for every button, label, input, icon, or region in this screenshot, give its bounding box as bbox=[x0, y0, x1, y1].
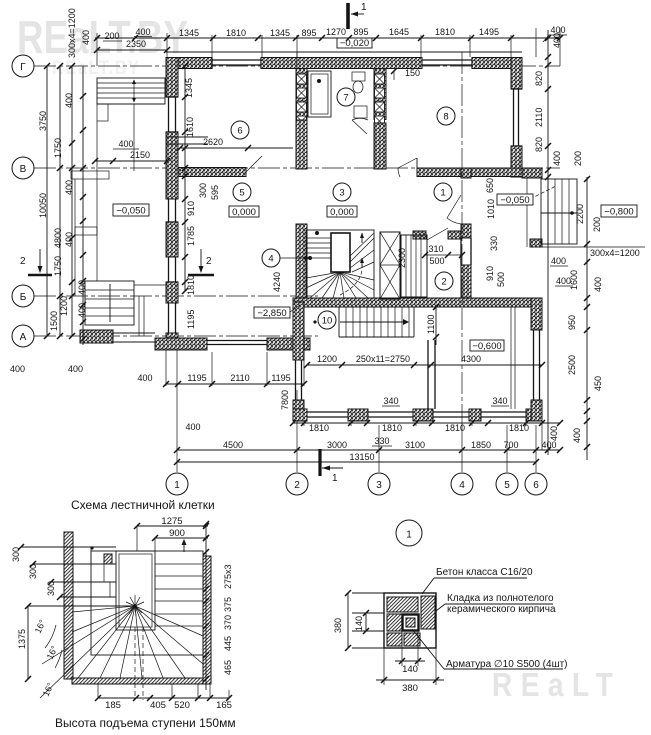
column circle 6 bbox=[525, 473, 547, 495]
elevation box -0.050 left bbox=[113, 204, 149, 216]
svg-text:1785: 1785 bbox=[186, 226, 196, 246]
stair left flight steps bbox=[306, 237, 331, 239]
svg-text:340: 340 bbox=[383, 396, 398, 406]
elevation box -0.800 bbox=[601, 205, 637, 217]
svg-text:Бетон класса С16/20: Бетон класса С16/20 bbox=[436, 567, 533, 578]
svg-text:375: 375 bbox=[223, 597, 233, 612]
left bottom dim row bbox=[166, 383, 304, 385]
stair right winders bbox=[350, 238, 374, 262]
axis circle В bbox=[12, 157, 34, 179]
dim 1275 bbox=[137, 525, 208, 527]
rebar core square bbox=[403, 615, 419, 631]
wing left wall window W10 bbox=[295, 360, 297, 400]
svg-text:REaLT.BY: REaLT.BY bbox=[52, 57, 141, 79]
porch landing left near В bbox=[71, 171, 109, 179]
svg-text:650: 650 bbox=[485, 178, 495, 193]
svg-text:400: 400 bbox=[185, 422, 200, 432]
svg-text:1810: 1810 bbox=[186, 275, 196, 295]
svg-text:1: 1 bbox=[174, 480, 180, 491]
wall top segment A bbox=[166, 58, 212, 69]
right dim line upper bbox=[547, 30, 549, 455]
svg-text:Г: Г bbox=[20, 62, 26, 73]
svg-text:1: 1 bbox=[440, 188, 445, 199]
svg-text:2110: 2110 bbox=[230, 373, 249, 383]
svg-text:Арматура ∅10 S500 (4шт): Арматура ∅10 S500 (4шт) bbox=[446, 659, 568, 670]
stair detail left wall bbox=[64, 532, 73, 679]
wing bottom wall seg1 bbox=[293, 409, 307, 421]
bottom dim 380 bbox=[383, 648, 385, 685]
wing bottom wall pier3 bbox=[469, 409, 481, 421]
wall column4 mid bbox=[374, 123, 386, 169]
svg-text:400: 400 bbox=[552, 151, 562, 166]
svg-text:3100: 3100 bbox=[405, 440, 425, 450]
wing stair circle 10 bbox=[318, 311, 336, 329]
svg-text:250x11=2750: 250x11=2750 bbox=[356, 354, 410, 364]
window left W7 bbox=[168, 303, 170, 333]
column axis 4 line bbox=[461, 425, 463, 472]
wall left column1 mid1 bbox=[166, 132, 178, 199]
svg-text:310: 310 bbox=[428, 244, 443, 254]
svg-text:1195: 1195 bbox=[187, 373, 206, 383]
svg-text:1375: 1375 bbox=[17, 629, 27, 649]
wing bottom window W12b bbox=[481, 411, 526, 413]
svg-text:400: 400 bbox=[81, 30, 91, 45]
brick hatch top-left bbox=[387, 597, 418, 612]
svg-text:1100: 1100 bbox=[426, 315, 436, 334]
wall column2 mid bbox=[296, 120, 307, 169]
wall interior 4-5 thin mid bbox=[460, 238, 462, 265]
wing right window W13 bbox=[533, 330, 535, 400]
window left W4 bbox=[168, 97, 170, 132]
axis 4 dash line vertical bbox=[461, 52, 463, 430]
elevation box -0.050 right bbox=[497, 194, 533, 205]
svg-text:8: 8 bbox=[443, 112, 448, 123]
axis В line bbox=[34, 167, 560, 169]
svg-text:1: 1 bbox=[332, 473, 338, 484]
svg-text:700: 700 bbox=[503, 440, 518, 450]
column circle 3 bbox=[368, 473, 390, 495]
wall left column1 upper bbox=[166, 58, 178, 98]
svg-text:1850: 1850 bbox=[471, 440, 491, 450]
svg-text:Б: Б bbox=[20, 292, 27, 303]
wall bottom-left (А axis) seg2 bbox=[267, 338, 310, 350]
svg-text:1345: 1345 bbox=[184, 78, 194, 98]
svg-text:1645: 1645 bbox=[389, 27, 409, 37]
dim 900 bbox=[155, 537, 208, 539]
svg-text:330: 330 bbox=[489, 236, 499, 251]
axis circle Г bbox=[12, 55, 34, 77]
left dim 380 bbox=[347, 593, 349, 648]
svg-text:6: 6 bbox=[237, 126, 242, 137]
svg-text:Кладка из полнотелого: Кладка из полнотелого bbox=[447, 593, 554, 604]
svg-text:275x3: 275x3 bbox=[223, 564, 233, 589]
section flag 1 bottom bbox=[318, 449, 321, 476]
stair walking line bbox=[340, 270, 362, 295]
svg-text:1810: 1810 bbox=[309, 423, 329, 433]
wing right wall top bbox=[531, 298, 542, 330]
wall left column1 mid2 bbox=[166, 222, 178, 257]
brick hatch left-mid bbox=[387, 614, 402, 631]
svg-text:2350: 2350 bbox=[126, 39, 146, 49]
svg-text:1750: 1750 bbox=[53, 138, 63, 158]
svg-text:1810: 1810 bbox=[435, 27, 455, 37]
svg-text:300: 300 bbox=[28, 564, 38, 579]
wall left column1 lower bbox=[166, 282, 178, 303]
room circle 4 bbox=[262, 249, 280, 267]
left dim 140 bbox=[365, 613, 367, 631]
wall axis В left part bbox=[166, 168, 246, 177]
window А-wall W9 bbox=[207, 340, 267, 342]
window left W6 bbox=[168, 257, 170, 282]
svg-text:5: 5 bbox=[504, 480, 510, 491]
room circle 1 bbox=[434, 183, 452, 201]
column section outer square bbox=[384, 593, 436, 648]
wall left column1 bottom bbox=[166, 333, 178, 350]
svg-text:400: 400 bbox=[135, 27, 150, 37]
section flag 1 top bbox=[346, 3, 350, 29]
svg-text:5: 5 bbox=[239, 188, 244, 199]
svg-text:895: 895 bbox=[353, 27, 368, 37]
svg-text:820: 820 bbox=[534, 71, 544, 86]
svg-text:450: 450 bbox=[593, 376, 603, 391]
COLUMN-DETAIL bbox=[333, 520, 568, 694]
wing upper dim row bbox=[307, 364, 542, 366]
svg-text:300: 300 bbox=[46, 581, 56, 596]
svg-text:400: 400 bbox=[549, 426, 559, 441]
axis circle А bbox=[12, 325, 34, 347]
svg-text:400: 400 bbox=[77, 303, 87, 318]
inner left dim line bbox=[184, 66, 186, 291]
elevation box -0.020 bbox=[337, 38, 372, 48]
wing bottom wall seg3 bbox=[526, 409, 542, 421]
porch wall bottom-left block bbox=[80, 330, 113, 343]
right dim column bbox=[205, 524, 207, 690]
svg-text:1195: 1195 bbox=[271, 373, 290, 383]
room circle 5 bbox=[233, 183, 251, 201]
svg-text:185: 185 bbox=[105, 700, 121, 711]
svg-text:900: 900 bbox=[169, 528, 185, 539]
svg-text:4240: 4240 bbox=[272, 272, 282, 292]
svg-text:А: А bbox=[20, 332, 27, 343]
А wall extension lines bbox=[165, 350, 167, 386]
room circle 2 bbox=[435, 272, 453, 290]
column circle 4 bbox=[451, 473, 473, 495]
svg-text:2300: 2300 bbox=[397, 248, 407, 268]
svg-text:4: 4 bbox=[268, 254, 273, 265]
svg-text:1500: 1500 bbox=[49, 311, 59, 331]
svg-text:4500: 4500 bbox=[223, 440, 243, 450]
bottom main dim row bbox=[177, 449, 560, 451]
svg-text:2: 2 bbox=[294, 480, 300, 491]
elevation box 0.000 room3 bbox=[327, 206, 357, 217]
left dim lines bbox=[46, 66, 48, 336]
room circle 6 bbox=[231, 121, 249, 139]
svg-text:−0,600: −0,600 bbox=[472, 341, 501, 352]
axis 2 dash line vertical short bbox=[296, 52, 298, 68]
svg-text:150: 150 bbox=[405, 68, 420, 78]
wall column2 bathroom-left bbox=[296, 69, 307, 121]
wall bottom-left (А axis) seg1 bbox=[155, 338, 207, 350]
svg-text:2: 2 bbox=[20, 256, 26, 267]
column circle 1 bbox=[166, 473, 188, 495]
svg-text:10: 10 bbox=[322, 316, 333, 327]
wall column4 bathroom-right bbox=[374, 69, 386, 120]
svg-text:1195: 1195 bbox=[186, 310, 196, 329]
wall column2 stair-left bbox=[296, 224, 307, 302]
angle arcs bbox=[45, 625, 56, 648]
svg-text:380: 380 bbox=[333, 618, 343, 633]
svg-text:165: 165 bbox=[216, 700, 232, 711]
svg-text:Схема лестничной клетки: Схема лестничной клетки bbox=[71, 498, 215, 512]
brick hatch bottom-left bbox=[387, 633, 402, 646]
bottom dim 140 bbox=[401, 631, 403, 666]
fan center rays bbox=[126, 595, 144, 616]
column axis 2 line bbox=[296, 390, 298, 472]
wing top wall bbox=[293, 298, 542, 307]
svg-text:200: 200 bbox=[104, 31, 119, 41]
toilet room7 bbox=[352, 72, 365, 81]
svg-text:REaLT: REaLT bbox=[492, 667, 621, 704]
wing stair end wall and partition bbox=[413, 307, 415, 337]
svg-text:4300: 4300 bbox=[461, 354, 481, 364]
elevation box -0.600 bbox=[470, 340, 504, 351]
svg-text:400: 400 bbox=[556, 276, 571, 286]
sink room7 bbox=[354, 106, 367, 118]
stair detail right wall bbox=[203, 556, 211, 684]
axis circle Б bbox=[12, 285, 34, 307]
svg-text:1750: 1750 bbox=[53, 256, 63, 276]
svg-text:910: 910 bbox=[485, 266, 495, 281]
terrace edge lines left bbox=[74, 179, 76, 296]
wing bottom window W11b bbox=[368, 411, 413, 413]
column axis 1 line bbox=[176, 345, 178, 472]
svg-text:6: 6 bbox=[533, 480, 539, 491]
svg-text:300x4=1200: 300x4=1200 bbox=[590, 248, 640, 258]
svg-text:400: 400 bbox=[68, 364, 83, 374]
svg-text:340: 340 bbox=[492, 396, 507, 406]
brick hatch bottom-mid bbox=[404, 633, 420, 646]
wing bottom window W11a bbox=[307, 411, 348, 413]
brick hatch right bbox=[421, 596, 435, 629]
door at В wall left of room8 bbox=[416, 158, 418, 177]
svg-text:1275: 1275 bbox=[161, 516, 182, 527]
STAIR-DETAIL bbox=[11, 498, 236, 730]
svg-text:400: 400 bbox=[572, 428, 582, 443]
elevation box 0.000 room5 bbox=[229, 206, 259, 217]
svg-text:7800: 7800 bbox=[280, 390, 290, 410]
svg-text:0,000: 0,000 bbox=[232, 207, 256, 218]
svg-text:400: 400 bbox=[541, 440, 556, 450]
wall right top corner bbox=[511, 58, 522, 90]
section grid lines bbox=[352, 592, 384, 594]
wing left wall lower bbox=[293, 400, 304, 421]
left dim 1375 bbox=[27, 606, 29, 679]
svg-text:465: 465 bbox=[223, 660, 233, 675]
wall axis В right part bbox=[417, 168, 542, 177]
svg-text:400: 400 bbox=[64, 180, 74, 195]
stair detail bottom wall bbox=[72, 678, 203, 684]
window left W5 bbox=[168, 199, 170, 222]
svg-text:500: 500 bbox=[496, 272, 506, 287]
wing stair steps bbox=[338, 307, 340, 337]
axis Б line bbox=[34, 295, 318, 297]
column axis 5 line bbox=[506, 425, 508, 472]
svg-text:13150: 13150 bbox=[349, 452, 374, 462]
bottom total dim row bbox=[177, 461, 536, 463]
wall interior 4-5 lower bbox=[461, 265, 471, 306]
svg-text:300x4=1200: 300x4=1200 bbox=[67, 8, 77, 58]
svg-text:1810: 1810 bbox=[382, 423, 402, 433]
room circle 8 bbox=[437, 107, 455, 125]
svg-text:2: 2 bbox=[441, 277, 446, 288]
svg-text:7: 7 bbox=[343, 93, 348, 104]
svg-text:595: 595 bbox=[210, 185, 220, 200]
svg-text:3750: 3750 bbox=[38, 111, 48, 131]
stair fan steps bbox=[306, 272, 340, 278]
svg-text:400: 400 bbox=[552, 33, 562, 48]
svg-text:В: В bbox=[20, 164, 27, 175]
wing stair dim 1100 bbox=[435, 307, 437, 345]
wall small hatch above room2 bbox=[413, 231, 426, 239]
svg-text:керамического кирпича: керамического кирпича bbox=[447, 604, 556, 615]
right exterior stair dims bbox=[586, 177, 588, 247]
porch stair top-left bbox=[97, 78, 165, 104]
top extension lines bbox=[96, 33, 98, 66]
wing bottom extension lines bbox=[303, 421, 305, 426]
room circle 7 bbox=[337, 88, 355, 106]
svg-text:400: 400 bbox=[10, 364, 25, 374]
dashed lines down bbox=[134, 627, 136, 700]
outer face line top wall bbox=[166, 51, 522, 53]
room circle 3 bbox=[333, 183, 351, 201]
svg-text:200: 200 bbox=[592, 217, 602, 232]
column axis 3 line bbox=[378, 425, 380, 472]
svg-text:400: 400 bbox=[77, 280, 87, 295]
svg-text:2: 2 bbox=[206, 256, 212, 267]
svg-text:400: 400 bbox=[551, 256, 566, 266]
top dimension line bbox=[95, 37, 560, 39]
svg-text:1495: 1495 bbox=[479, 27, 499, 37]
svg-text:2500: 2500 bbox=[567, 355, 577, 375]
svg-text:2110: 2110 bbox=[534, 108, 544, 127]
column axis 6 line bbox=[535, 425, 537, 472]
svg-text:−0,020: −0,020 bbox=[340, 38, 369, 49]
section flag 2 left bbox=[28, 274, 52, 277]
bottom dim row stair bbox=[98, 697, 229, 699]
svg-text:1345: 1345 bbox=[270, 28, 290, 38]
wall interior 4-5 hatch bbox=[461, 224, 471, 238]
stair up arrow bbox=[183, 540, 185, 552]
svg-text:Высота подъема ступени 150мм: Высота подъема ступени 150мм bbox=[55, 716, 236, 730]
svg-text:−0,050: −0,050 bbox=[116, 206, 145, 217]
door room5 to hall bbox=[246, 156, 262, 172]
axis Г line bbox=[34, 65, 560, 67]
svg-text:1810: 1810 bbox=[226, 28, 246, 38]
svg-text:REaLT.BY: REaLT.BY bbox=[17, 11, 188, 63]
svg-text:400: 400 bbox=[64, 93, 74, 108]
fan steps bbox=[72, 606, 135, 612]
svg-text:300: 300 bbox=[198, 183, 208, 198]
exterior stair right bbox=[541, 179, 577, 244]
column circle 5 bbox=[496, 473, 518, 495]
window right W3 bbox=[513, 89, 515, 146]
window top W2 bbox=[422, 59, 472, 61]
svg-text:1200: 1200 bbox=[59, 296, 69, 316]
vent blocks column2 bbox=[297, 74, 307, 84]
svg-text:3: 3 bbox=[376, 480, 382, 491]
vent blocks column4 bbox=[375, 74, 385, 84]
dim 2620 room6 bbox=[180, 147, 293, 149]
svg-text:1270: 1270 bbox=[326, 27, 346, 37]
chimney column crosshatched bbox=[380, 232, 400, 299]
wing left wall bbox=[293, 302, 304, 360]
section flag 2 right bbox=[188, 274, 214, 277]
svg-text:330: 330 bbox=[374, 436, 389, 446]
detail circle 1 bbox=[396, 520, 422, 546]
svg-text:140: 140 bbox=[402, 664, 418, 675]
svg-text:300: 300 bbox=[11, 547, 21, 562]
right lower dim line bbox=[586, 247, 588, 460]
svg-text:−0,050: −0,050 bbox=[500, 195, 529, 206]
window top W1 bbox=[212, 59, 261, 61]
wall top segment C bbox=[472, 58, 511, 69]
svg-text:3: 3 bbox=[339, 188, 344, 199]
svg-text:405: 405 bbox=[150, 700, 166, 711]
wall top segment B bbox=[261, 58, 422, 69]
stair top-left steps bbox=[21, 546, 116, 548]
porch wall right of stairs bbox=[522, 168, 542, 178]
door room1 in wall 4-5 bbox=[447, 195, 461, 218]
svg-text:895: 895 bbox=[301, 28, 316, 38]
svg-text:−2,850: −2,850 bbox=[257, 308, 286, 319]
shaft right of stair bbox=[401, 235, 427, 297]
svg-text:2200: 2200 bbox=[575, 204, 585, 224]
svg-text:200: 200 bbox=[573, 151, 583, 166]
svg-text:1610: 1610 bbox=[185, 117, 195, 137]
svg-text:10050: 10050 bbox=[38, 193, 48, 218]
door bathroom bbox=[352, 120, 367, 134]
wing bottom window W12a bbox=[433, 411, 469, 413]
svg-text:3000: 3000 bbox=[327, 440, 347, 450]
stair detail outer boundary bbox=[91, 551, 203, 655]
axis А line bbox=[34, 335, 318, 337]
svg-text:2150: 2150 bbox=[130, 150, 150, 160]
svg-text:1: 1 bbox=[361, 2, 367, 13]
svg-text:500: 500 bbox=[429, 256, 444, 266]
MAIN-PLAN bbox=[12, 55, 560, 495]
bathtub room7 bbox=[308, 71, 331, 117]
wall right segment bbox=[511, 146, 522, 177]
wing stair arrow bbox=[340, 321, 408, 323]
svg-text:400: 400 bbox=[137, 373, 152, 383]
svg-text:520: 520 bbox=[174, 700, 190, 711]
svg-text:2620: 2620 bbox=[203, 137, 223, 147]
svg-text:370: 370 bbox=[223, 615, 233, 630]
main stair room4 bbox=[306, 230, 374, 298]
wing bottom wall pier2 bbox=[413, 409, 433, 421]
svg-text:−0,800: −0,800 bbox=[604, 207, 633, 218]
svg-text:0,000: 0,000 bbox=[330, 207, 354, 218]
stair detail well bbox=[116, 551, 155, 630]
svg-text:140: 140 bbox=[354, 616, 364, 631]
wing bottom wall pier1 bbox=[348, 409, 368, 421]
porch lower wall stub bbox=[166, 136, 208, 138]
column circle 2 bbox=[286, 473, 308, 495]
stair right flight steps bbox=[155, 563, 203, 565]
svg-text:1345: 1345 bbox=[179, 28, 199, 38]
stair well bbox=[331, 233, 350, 272]
svg-text:1: 1 bbox=[406, 530, 412, 541]
